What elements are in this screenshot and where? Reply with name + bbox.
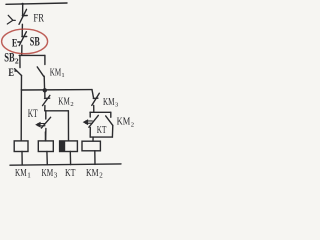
svg-text:FR: FR <box>33 13 44 25</box>
wire: right KT contact to rejoin bar <box>89 128 91 138</box>
wire: split bar of SB2/KM1 parallel branch <box>19 54 45 56</box>
wire: KM2 NO contact to rejoin bar <box>111 125 113 137</box>
wire: right leg down to KM1 contact <box>44 55 46 64</box>
svg-text:1: 1 <box>27 171 31 179</box>
svg-text:KM: KM <box>86 168 99 179</box>
svg-text:KM: KM <box>42 168 54 179</box>
wire: coil KM1 bottom stub <box>21 152 23 165</box>
svg-text:KM: KM <box>50 66 62 78</box>
wire: FR to SB <box>21 24 23 36</box>
wire: SB to parallel split <box>21 45 23 55</box>
wire: left leg down to KT delayed contact <box>45 111 47 119</box>
wire: right leg down to KM2 NO contact <box>110 112 112 117</box>
auxiliary contact KM1 (NO, self-holding) <box>37 67 43 76</box>
svg-text:KM: KM <box>103 97 115 108</box>
wire: KM1 contact to bus <box>43 76 45 90</box>
auxiliary contact KM2 (NO, bypass) <box>106 116 113 126</box>
wire: KM3 contact to split bar 3 <box>93 105 95 112</box>
delay symbol arrow of KT contact <box>36 122 45 127</box>
wire: split bar 2 (KT / bypass) <box>45 110 69 112</box>
svg-text:KM: KM <box>117 117 131 128</box>
time-delay contact KT (NO, on-delay) <box>41 117 50 128</box>
svg-text:1: 1 <box>61 72 64 79</box>
coil KM1 <box>14 141 28 152</box>
svg-text:KM: KM <box>58 97 70 108</box>
wire: bus left end down to coil KM1 <box>20 90 22 141</box>
svg-text:2: 2 <box>131 121 134 128</box>
svg-text:KT: KT <box>97 125 107 136</box>
wire: main line from top rail to FR contact <box>22 4 24 16</box>
time-delay contact KT right (NO, on-delay) <box>89 115 98 127</box>
thermal release arrow of FR <box>7 15 15 24</box>
wire: bus junction down to KM2 contact <box>44 90 46 98</box>
start pushbutton SB2 (NO) <box>15 69 22 76</box>
wire: left leg down to SB2 contact <box>19 55 21 67</box>
svg-text:SB: SB <box>30 34 40 48</box>
wire: split bar 3 (KT / KM2 parallel) <box>90 111 111 113</box>
svg-text:2: 2 <box>70 101 73 108</box>
svg-text:2: 2 <box>99 171 103 179</box>
annotation: red ellipse highlighting SB <box>2 29 48 54</box>
stop pushbutton SB (NC) <box>18 32 27 46</box>
wire: KM2 contact to split bar 2 <box>44 106 46 111</box>
coil KT (dark scanned box) <box>60 141 78 152</box>
svg-text:3: 3 <box>54 171 58 179</box>
svg-text:E: E <box>12 35 18 49</box>
wire: coil KM3 bottom stub <box>46 152 48 165</box>
interlock contact KM2 (NC) <box>43 95 50 105</box>
svg-text:KT: KT <box>65 168 76 179</box>
wire: coil KM2 bottom stub <box>94 151 96 165</box>
wire: bypass leg down to coil KT <box>67 111 69 141</box>
node: junction dot on bus <box>43 88 47 92</box>
wire: coil KM3 top stub <box>44 132 46 141</box>
wire: top supply rail <box>6 3 67 4</box>
wire: rejoin bar to coil KM2 <box>92 137 94 141</box>
wire: bottom return rail <box>10 164 121 165</box>
thermal relay contact FR (NC) <box>19 9 27 24</box>
wire: coil KT bottom stub <box>69 152 71 165</box>
node: junction of main line with top rail <box>21 3 23 5</box>
svg-text:KT: KT <box>28 107 38 120</box>
wire: bus right end down to KM3 contact <box>92 90 94 99</box>
svg-text:2: 2 <box>15 56 19 65</box>
wire: horizontal bus <box>21 89 92 91</box>
wire: left leg to right KT contact <box>89 112 91 117</box>
coil KM2 <box>82 141 100 151</box>
coil KM3 <box>38 141 53 152</box>
wire: SB2 contact to bus <box>20 76 22 90</box>
wire: KT contact to coil KM3 <box>45 128 47 140</box>
svg-text:E: E <box>8 65 14 79</box>
interlock contact KM3 (NC) <box>92 93 100 105</box>
svg-text:KM: KM <box>15 168 27 179</box>
delay symbol arrow of right KT contact <box>84 120 93 125</box>
wire: rejoin bar of KT/KM2 parallel <box>90 136 112 138</box>
